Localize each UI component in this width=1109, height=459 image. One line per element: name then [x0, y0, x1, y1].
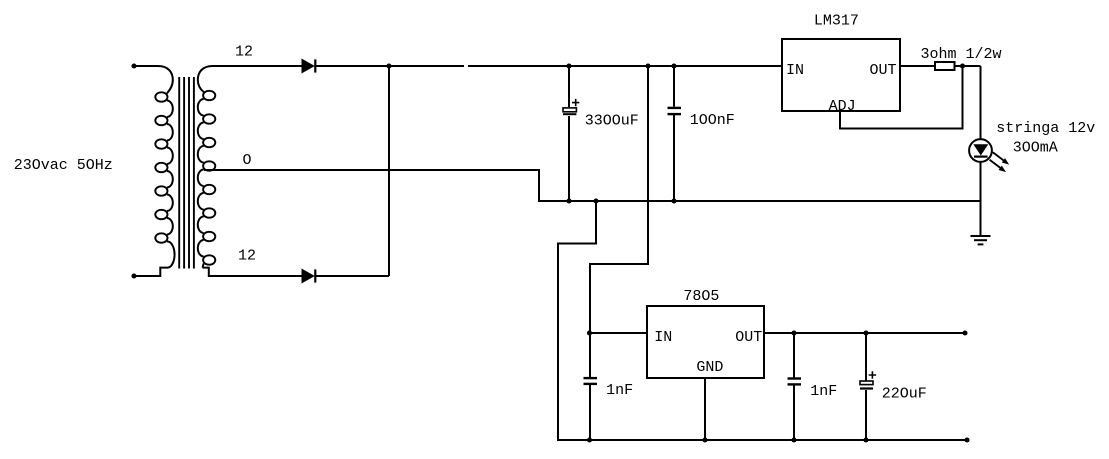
svg-text:12: 12: [235, 43, 253, 60]
svg-text:GND: GND: [696, 359, 723, 376]
svg-text:23Ovac 5OHz: 23Ovac 5OHz: [14, 157, 113, 174]
svg-text:12: 12: [238, 248, 256, 265]
svg-text:O: O: [243, 152, 252, 169]
svg-text:OUT: OUT: [870, 62, 897, 79]
svg-text:IN: IN: [786, 62, 804, 79]
svg-text:3ohm 1/2w: 3ohm 1/2w: [921, 46, 1002, 63]
svg-text:LM317: LM317: [814, 12, 859, 29]
svg-text:OUT: OUT: [735, 329, 762, 346]
svg-text:22OuF: 22OuF: [882, 386, 927, 403]
svg-text:78O5: 78O5: [683, 288, 719, 305]
svg-text:stringa 12v: stringa 12v: [996, 120, 1095, 137]
svg-text:1OOnF: 1OOnF: [690, 112, 735, 129]
svg-text:IN: IN: [654, 329, 672, 346]
svg-text:1nF: 1nF: [810, 383, 837, 400]
svg-text:ADJ: ADJ: [829, 98, 856, 115]
svg-text:1nF: 1nF: [606, 382, 633, 399]
svg-text:3OOmA: 3OOmA: [1013, 140, 1058, 157]
svg-text:33OOuF: 33OOuF: [585, 112, 639, 129]
